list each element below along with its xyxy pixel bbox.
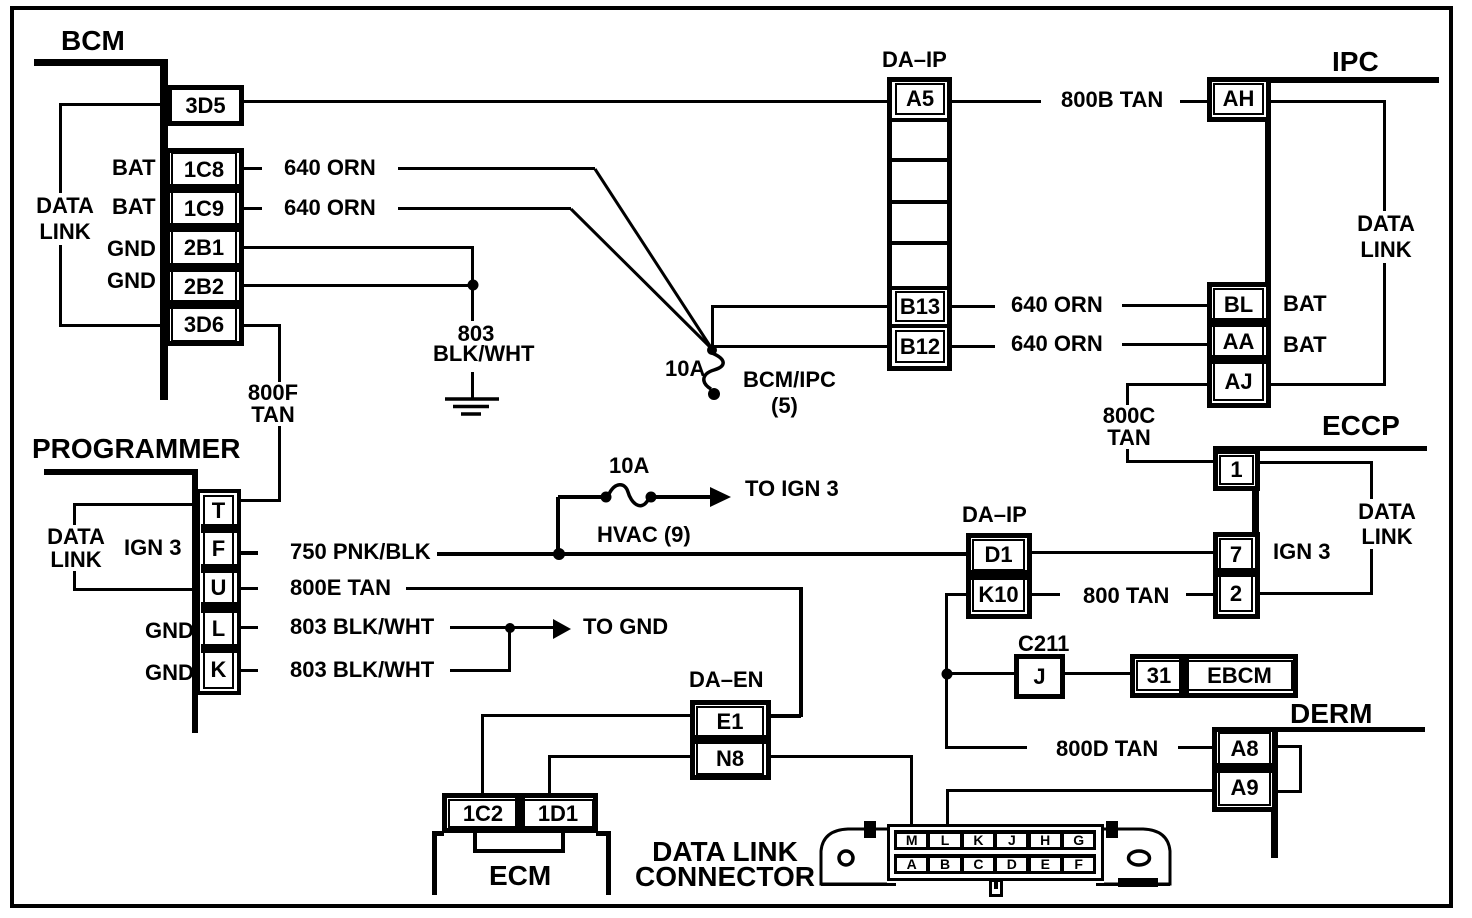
connector bottom pin row frame [894,854,1096,874]
PROGRAMMER divider 4 [201,644,239,653]
label DATA LINK (BCM) [34,193,96,245]
fuse 10A HVAC right terminal [646,492,657,503]
label DA-IP (top) [882,49,947,71]
wire E1 left horizontal [483,714,690,717]
wire N8 right vertical to connector [910,755,913,824]
label 800C TAN [1099,405,1159,449]
ECM title [489,862,551,890]
BCM title [61,27,125,55]
pin T [203,495,234,527]
label 800E TAN [290,577,391,599]
wire K vertical to junction [508,629,511,671]
wire 3D6 stub [244,324,281,327]
pin 1D1 [522,799,594,828]
wire 1C8 stub [244,167,262,170]
DERM loop top [1277,745,1302,748]
DERM divider [1216,763,1273,773]
wire B13 horizontal [711,305,887,308]
wire A5 right [952,100,1041,103]
DA-EN divider [694,735,766,744]
label (5) [771,395,798,417]
pin box J [1014,654,1065,699]
IPC group divider 1 [1211,318,1267,327]
label BAT 1C9 [112,196,156,218]
DA-IP column box [887,77,952,371]
node junction 2B2 ground [468,280,479,291]
wire TO GND arrow line [511,626,553,629]
wire ground vertical upper [471,287,474,321]
PROGRAMMER title [32,435,240,463]
label 803 BLK/WHT (L) [290,616,434,638]
wire N8 left vertical [548,755,551,795]
ECCP title [1322,412,1400,440]
label BAT 1C8 [112,157,156,179]
PROGRAMMER divider 1 [201,524,239,533]
connector pin L [930,834,959,847]
fusible link BCM/IPC squiggle [704,353,723,389]
pin D1 [972,539,1025,571]
pin A9 [1218,770,1271,806]
label TO IGN 3 [745,478,839,500]
DERM loop bottom [1277,790,1302,793]
wire fuse left horizontal [558,495,607,499]
BCM data link bracket bottom stub [59,324,165,327]
wire B13 right stub [952,305,995,308]
IPC group divider 2 [1211,355,1267,364]
connector pin B [930,858,959,871]
label BAT (AA) [1283,334,1327,356]
IPC data link bracket vertical [1383,100,1386,386]
IPC spine [1265,77,1271,408]
wire AJ to 800C horizontal [1128,383,1207,386]
connector pin A [897,858,926,871]
wire 750 PNK/BLK main [437,552,967,556]
wire 800C vertical [1126,383,1129,463]
node junction K10/J [942,669,953,680]
pin N8 [696,742,764,775]
wire N8 left horizontal [550,755,690,758]
pin AJ [1213,362,1264,401]
wire K10 vertical upper [945,593,948,676]
ECCP data link bracket vertical [1370,461,1373,594]
wire 2 stub [1186,593,1213,596]
node junction TO GND [505,623,515,633]
wire 640 ORN 1C8 horizontal [398,167,595,170]
ECM pin group box [442,793,598,833]
wire 800D TAN horizontal [945,746,1027,749]
wire fuse branch vertical [556,497,560,554]
pin BL [1213,288,1264,321]
label 640 ORN (B12) [1011,333,1103,355]
wire N8 right horizontal [771,755,913,758]
pin B13 [895,291,945,322]
label 803 BLK/WHT (ground) [431,324,521,364]
label HVAC (9) [597,524,691,546]
pin A5 [895,83,945,115]
wire L stub [241,626,258,629]
fuse 10A HVAC left terminal [601,492,612,503]
label GND (L) [145,620,194,642]
label IGN 3 (ECCP) [1273,541,1330,563]
label DA-IP (second) [962,504,1027,526]
IPC data link bracket bottom stub [1271,383,1385,386]
BCM spine [160,59,168,400]
BCM pin group box [165,148,244,346]
wire fuse right horizontal [650,495,710,499]
BCM data link bracket top stub [59,103,160,106]
label 10A (HVAC fuse) [609,455,649,477]
wire B12 right stub [952,345,995,348]
pin 7 [1219,538,1253,571]
arrow TO GND [553,619,571,639]
wire junction to J [947,672,1014,675]
connector right wing [1104,829,1170,884]
BCM data link bracket vertical [59,103,62,326]
ECCP spine [1252,449,1259,619]
wire 800C to ECCP 1 [1126,460,1213,463]
label 800B TAN [1061,89,1163,111]
DERM underline [1212,727,1425,732]
PROGRAMMER divider 2 [201,564,239,573]
label DA-EN [689,669,764,691]
label 800 TAN [1083,585,1169,607]
wire E1 right horizontal [771,714,801,718]
label 750 PNK/BLK [290,541,431,563]
connector right foot [1096,883,1170,886]
pin 31 [1136,660,1182,691]
pin L [203,611,234,647]
DERM loop right [1299,745,1302,793]
BCM group divider 4 [169,300,240,309]
pin A8 [1218,732,1271,766]
wire 3D5 to A5 800B TAN [244,100,887,103]
pin 2B2 [171,270,237,303]
connector pin E [1031,858,1060,871]
pin 3D6 [171,307,237,342]
DA-IP divider 6 [892,324,947,328]
pin E1 [696,706,764,738]
ECCP underline [1213,446,1427,451]
pin 1C9 [171,191,237,226]
connector pin G [1064,834,1093,847]
wire ground vertical lower [471,372,474,400]
PROGRAMMER pin group box [196,489,241,695]
wire K10 left stub [947,593,966,596]
wire A8 stub [1178,746,1212,749]
wire A9 left horizontal [948,789,1212,792]
node fusible link bottom [708,388,720,400]
EBCM group box [1130,654,1298,698]
pin 2B1 [171,230,237,266]
connector pin F [1064,858,1093,871]
label DATA LINK CONNECTOR [635,839,815,889]
ECCP data link bracket top stub [1260,461,1373,464]
connector left hole [839,851,853,865]
connector pin M [897,834,926,847]
BCM group divider 2 [169,223,240,232]
label BCM/IPC [743,369,836,391]
label 803 BLK/WHT (K) [290,659,434,681]
wire 800F TAN vertical [278,324,281,502]
PROGRAMMER underline [44,469,196,475]
ECM notch horizontal [473,849,565,853]
label DATA LINK (ECCP) [1354,499,1420,549]
pin K [203,651,234,689]
label GND 2B2 [107,270,156,292]
label GND 2B1 [107,238,156,260]
ECM bracket right vertical [606,831,611,895]
DA-IP divider 4 [892,241,947,245]
label 640 ORN (B13) [1011,294,1103,316]
DERM title [1290,700,1372,728]
wire diagonal 640 ORN from 1C8 [595,169,712,349]
wire to AA [1122,343,1207,346]
PROGRAMMER data link bracket top stub [73,503,192,506]
wire 800F TAN to T [240,499,281,502]
connector top pin row frame [894,830,1096,850]
label 800D TAN [1056,738,1158,760]
DA-IP divider 1 [892,118,947,122]
connector body [887,824,1104,881]
wire K10 right stub [1032,593,1060,596]
connector pin C [964,858,993,871]
DA-IP divider 2 [892,158,947,162]
wire E1 left vertical [481,714,484,795]
wire B13 vertical [711,305,714,350]
PROGRAMMER spine [192,469,198,733]
connector pin K [964,834,993,847]
label DATA LINK (PROGRAMMER) [44,525,108,571]
ECCP group divider [1217,568,1255,577]
PROGRAMMER divider 3 [201,602,239,613]
connector right hole [1129,851,1150,865]
label 640 ORN (1C8) [284,157,376,179]
PROGRAMMER data link bracket vertical [73,503,76,590]
IPC title [1332,48,1379,76]
IPC underline [1271,77,1439,83]
ECM notch left vertical [473,833,477,852]
DA-IP divider 3 [892,200,947,204]
pin 1C2 [448,799,518,828]
pin box AH [1207,77,1271,122]
DA-IP second group box [966,533,1032,619]
BCM group divider 1 [169,184,240,193]
wire K horizontal [450,669,511,672]
label DATA LINK (IPC) [1352,211,1420,263]
pin box 3D5 [167,85,244,126]
label IGN 3 (PROGRAMMER) [124,537,181,559]
EBCM divider [1179,658,1189,693]
ECCP pin group box [1213,532,1260,619]
connector left foot [821,883,896,886]
PROGRAMMER data link bracket bottom stub [73,588,196,591]
DA-EN group box [690,700,771,780]
pin B12 [895,330,945,363]
ECM bracket left stub [432,831,444,836]
BCM underline [34,59,167,66]
node fusible link top [707,345,717,355]
label C211 [1018,633,1069,655]
connector right tab [1106,821,1118,838]
wire U stub [241,587,258,590]
connector pin H [1031,834,1060,847]
wire diagonal 640 ORN from 1C9 [571,209,712,349]
ECM divider [515,797,525,830]
wire K10 vertical lower [945,674,948,749]
label BAT (BL) [1283,293,1327,315]
pin U [203,571,234,605]
wire 2B1 horizontal [244,246,474,249]
wire 1C9 stub [244,207,262,210]
pin AA [1213,325,1264,358]
pin F [203,531,234,567]
IPC data link bracket top stub [1271,100,1385,103]
ECM bracket left vertical [432,831,437,895]
DA-IP divider 5 [892,286,947,290]
DERM pin group box [1212,727,1277,812]
DA-IP second divider [970,570,1027,580]
connector pin D [997,858,1026,871]
pin 1C8 [171,152,237,187]
fuse 10A HVAC squiggle [609,485,648,506]
connector left tab [864,821,876,838]
wire K stub [241,669,258,672]
DERM spine [1271,727,1278,858]
label 640 ORN (1C9) [284,197,376,219]
wire 2B1 vertical [471,246,474,288]
wire B12 horizontal [713,345,887,348]
ECCP data link bracket bottom stub [1260,592,1373,595]
wire AH stub [1180,100,1207,103]
ECM notch right vertical [561,833,565,852]
ECM bracket right stub [596,831,611,836]
label GND (K) [145,662,194,684]
wire 2B2 horizontal [244,284,474,287]
node junction 750 PNK/BLK [553,548,565,560]
wire 640 ORN 1C9 horizontal [398,207,571,210]
connector left wing [821,829,887,884]
BCM group divider 3 [169,263,240,272]
wire L horizontal [450,626,511,629]
pin K10 [972,578,1025,612]
wire 800E TAN vertical [799,587,803,717]
pin EBCM [1186,660,1293,691]
label 10A (BCM/IPC fuse) [665,358,705,380]
wire 800E TAN main [406,587,802,590]
wire to BL [1122,304,1207,307]
connector pin J [997,834,1026,847]
IPC pin group box [1207,282,1271,408]
pin 2 [1219,575,1253,612]
ground symbol [445,399,499,414]
connector right black bar [1118,878,1158,887]
arrow TO IGN 3 [710,487,731,507]
connector bottom tab tick [994,881,998,889]
wire A9 vertical to connector [946,789,949,824]
wire D1 to 7 [1032,551,1213,554]
connector bottom tab [989,879,1003,897]
label 800F TAN [243,382,303,426]
wire F stub [241,551,258,555]
wire J to 31 [1065,672,1130,675]
label TO GND [583,616,668,638]
pin box 1 [1213,449,1260,491]
